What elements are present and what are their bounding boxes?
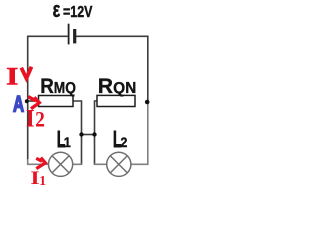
svg-text:I: I: [6, 63, 18, 91]
svg-text:A: A: [13, 93, 24, 118]
svg-text:ε: ε: [53, 0, 61, 23]
svg-text:1: 1: [39, 173, 46, 188]
svg-text:1: 1: [64, 135, 71, 151]
svg-text:RQN: RQN: [98, 74, 136, 98]
svg-text:RMQ: RMQ: [40, 75, 76, 98]
svg-text:I: I: [30, 167, 39, 188]
svg-text:2: 2: [121, 135, 128, 151]
svg-text:I2: I2: [26, 105, 45, 132]
svg-text:=12V: =12V: [63, 4, 93, 22]
